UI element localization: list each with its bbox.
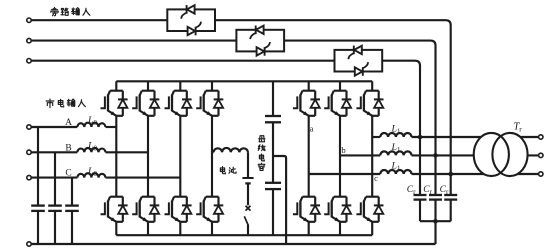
svg-text:C: C [65,169,71,179]
svg-text:b: b [341,145,345,155]
svg-text:A: A [65,118,72,128]
svg-text:Cr: Cr [423,185,432,196]
svg-text:B: B [65,143,71,153]
svg-text:Cr: Cr [440,185,449,196]
svg-text:Cr: Cr [407,185,416,196]
svg-text:a: a [310,124,314,134]
svg-text:c: c [374,173,378,183]
